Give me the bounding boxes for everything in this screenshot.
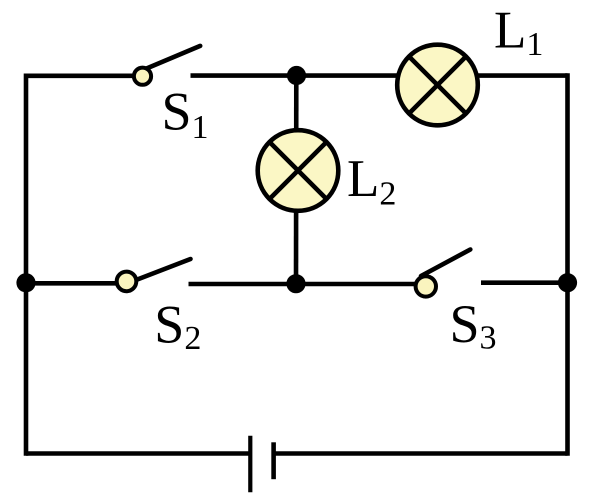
wire left side (24, 74, 29, 456)
lamp L1 (397, 45, 478, 126)
switch S1 (134, 46, 200, 85)
node on right wire (558, 273, 577, 292)
wire bottom-left segment (26, 451, 250, 456)
battery B long plate (248, 436, 252, 493)
switch S3 (416, 250, 471, 297)
wire top-right segment (191, 73, 568, 78)
switch S2 (117, 259, 191, 291)
wire middle-right segment (481, 280, 568, 285)
wire bottom-right segment (274, 451, 568, 456)
battery B short plate (271, 442, 276, 479)
node middle junction (286, 274, 305, 293)
lamp L2 (258, 130, 339, 211)
wire middle-center segment (189, 282, 421, 287)
wire middle-left segment (26, 281, 126, 286)
wire lamp branch vertical (294, 76, 299, 285)
wire top-left segment (26, 74, 142, 79)
node on top wire (287, 66, 306, 85)
wire right side (565, 73, 570, 456)
node on left wire (16, 273, 35, 292)
